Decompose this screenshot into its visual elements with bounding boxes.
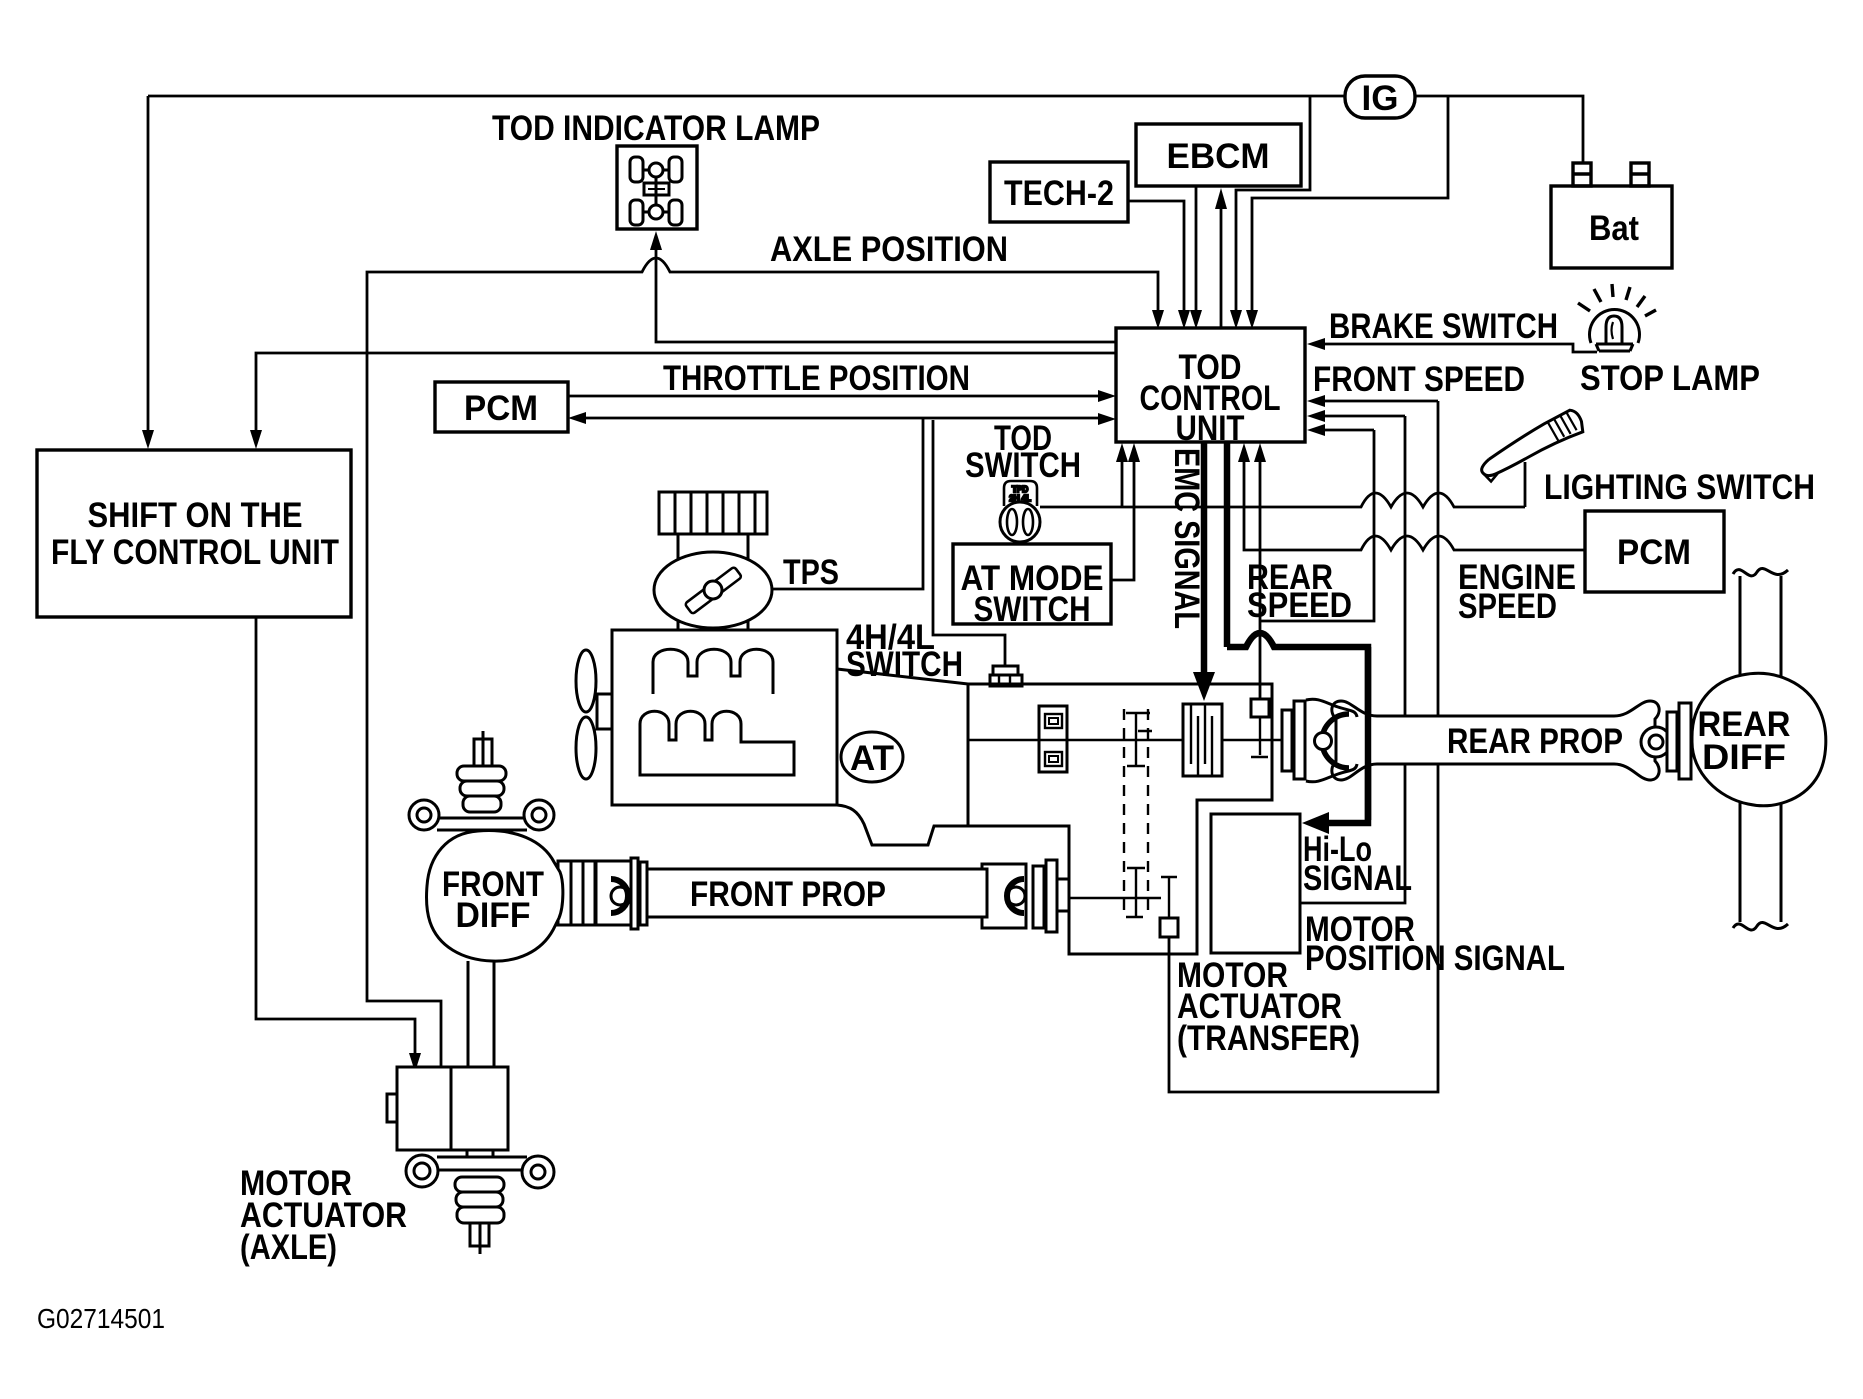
battery terminal left: [1573, 163, 1591, 186]
wire AXLE POSITION: [367, 258, 1158, 1073]
TPS throttle body: [654, 552, 772, 628]
wire AT mode switch to TOD: [1111, 461, 1134, 580]
axle actuator lower flange: [467, 1150, 493, 1157]
box TOD indicator lamp: [617, 146, 697, 229]
arrow TPS line into PCM: [568, 412, 586, 424]
wire EMC signal (thick): [1204, 442, 1368, 823]
wire rear speed sensor to TOD bottom: [1259, 461, 1262, 699]
wire IG feed to shift-on-the-fly unit: [147, 96, 150, 431]
wire IG branch A to TOD control unit: [1236, 96, 1310, 312]
arrow into shift unit (right): [250, 430, 262, 449]
arrowhead Hi-Lo signal: [1302, 812, 1329, 834]
wire shift unit input 2: [256, 353, 1116, 431]
axle actuator stub: [470, 1223, 489, 1246]
svg-text:AXLE POSITION: AXLE POSITION: [770, 230, 1008, 269]
wire IG supply top: [148, 95, 1344, 98]
front output u-joint (transfer): [982, 864, 1026, 928]
front prop shaft: [641, 869, 987, 917]
box AT MODE SWITCH: [953, 544, 1111, 624]
upper sprocket: [1126, 713, 1152, 767]
air cleaner: [659, 492, 767, 534]
wire IG branch B to TOD control unit: [1252, 97, 1448, 312]
lighting switch stalk: [1474, 408, 1589, 483]
svg-text:TOD INDICATOR LAMP: TOD INDICATOR LAMP: [492, 109, 820, 148]
TOD indicator lamp 4WD symbol: [630, 157, 682, 225]
arrow axle position into TOD top: [1152, 310, 1164, 329]
box TOD CONTROL UNIT: [1116, 328, 1305, 442]
front diff stub: [474, 739, 492, 766]
TPS stalks: [678, 534, 748, 630]
transmission and transfer case outline: [837, 666, 1282, 954]
gear block on main shaft: [1039, 706, 1067, 772]
box PCM (right): [1585, 511, 1724, 592]
wire shift unit output to axle actuator: [256, 617, 415, 1054]
wire TPS to PCM and TOD: [586, 418, 1098, 589]
rear prop shaft: [1332, 701, 1659, 780]
lower output centerline: [1070, 897, 1161, 899]
battery terminal right: [1631, 163, 1649, 186]
svg-text:EBCM: EBCM: [1166, 137, 1269, 176]
front prop front u-joint: [596, 858, 647, 929]
box TECH-2: [990, 162, 1128, 222]
AT oval: [841, 732, 903, 782]
motor actuator (transfer) box: [1211, 814, 1300, 953]
arrow EBCM into TOD top: [1190, 310, 1202, 329]
wire IG to battery: [1416, 96, 1583, 164]
wire TECH-2 to TOD: [1128, 201, 1184, 312]
arrow TOD switch into TOD bottom: [1116, 443, 1128, 462]
box SHIFT ON THE FLY CONTROL UNIT: [37, 450, 351, 617]
clutch pack: [1183, 704, 1222, 776]
rear output flange: [1282, 701, 1305, 779]
arrow TOD into EBCM: [1215, 188, 1227, 209]
arrow rear speed into TOD right: [1307, 424, 1325, 436]
node IG: [1345, 76, 1415, 118]
wire PCM throttle position to TOD: [568, 395, 1098, 398]
svg-text:AT: AT: [850, 739, 894, 778]
svg-text:UNIT: UNIT: [1176, 409, 1245, 448]
svg-text:DIFF: DIFF: [1702, 738, 1786, 777]
engine fan: [576, 650, 596, 712]
stop lamp rays: [1578, 284, 1656, 316]
front diff input bars: [558, 861, 595, 925]
motor actuator (axle): [387, 1067, 554, 1254]
battery Bat: [1551, 186, 1672, 268]
arrow into shift unit (left): [142, 430, 154, 449]
box PCM (left): [435, 382, 568, 432]
front diff housing: [426, 831, 562, 961]
arrow IG branch B into TOD top: [1246, 310, 1258, 329]
svg-text:(AXLE): (AXLE): [240, 1228, 337, 1267]
axle actuator bellows: [455, 1177, 504, 1192]
svg-text:FRONT SPEED: FRONT SPEED: [1313, 360, 1525, 399]
engine block: [576, 492, 837, 805]
svg-text:BRAKE SWITCH: BRAKE SWITCH: [1329, 307, 1558, 346]
svg-text:REAR PROP: REAR PROP: [1447, 722, 1623, 761]
svg-text:TECH-2: TECH-2: [1004, 174, 1114, 213]
wire Hi-Lo signal over prop: [1365, 647, 1372, 820]
front diff bellows: [457, 766, 506, 781]
wire TOD indicator lamp feed: [656, 249, 1116, 342]
chain dashed lines: [1124, 709, 1148, 918]
wire motor position signal: [1300, 416, 1405, 903]
wire rear speed sensor to TOD right: [1260, 430, 1374, 621]
svg-text:IG: IG: [1362, 79, 1399, 118]
svg-text:LIGHTING SWITCH: LIGHTING SWITCH: [1544, 468, 1815, 507]
svg-text:DIFF: DIFF: [456, 896, 531, 935]
arrow 4H/4L line into TOD left: [1098, 413, 1116, 425]
AT section divider: [967, 684, 970, 826]
arrow into TOD indicator lamp: [650, 231, 662, 250]
svg-text:PCM: PCM: [1617, 533, 1691, 572]
exhaust manifold: [640, 711, 794, 775]
svg-text:TPD: TPD: [1012, 485, 1028, 494]
arrow IG branch A into TOD top: [1230, 310, 1242, 329]
svg-text:SIGNAL: SIGNAL: [1303, 859, 1412, 898]
wire lighting switch to TOD: [1122, 462, 1525, 507]
svg-text:FLY CONTROL UNIT: FLY CONTROL UNIT: [51, 533, 339, 572]
axle actuator bracket: [437, 1157, 527, 1170]
box EBCM: [1136, 124, 1301, 186]
svg-text:STOP LAMP: STOP LAMP: [1580, 359, 1760, 398]
arrow shift output into axle actuator: [409, 1053, 421, 1072]
TOD switch knob: [1000, 481, 1040, 542]
arrow rear speed into TOD bottom: [1254, 443, 1266, 462]
main shaft centerline: [968, 739, 1282, 741]
rear output yoke: [1306, 699, 1357, 782]
svg-text:SPEED: SPEED: [1247, 586, 1352, 625]
arrow engine speed into TOD bottom: [1238, 443, 1250, 462]
svg-text:THROTTLE POSITION: THROTTLE POSITION: [663, 359, 970, 398]
svg-text:POSITION SIGNAL: POSITION SIGNAL: [1305, 939, 1565, 978]
svg-text:EMC SIGNAL: EMC SIGNAL: [1167, 448, 1206, 629]
front diff to axle actuator shaft: [468, 961, 494, 1067]
lower sprocket: [1126, 867, 1177, 918]
arrowhead EMC signal: [1193, 672, 1215, 701]
svg-text:SWITCH: SWITCH: [965, 446, 1081, 485]
rear diff axle upper: [1733, 569, 1788, 930]
rear diff axle lower: [1740, 798, 1781, 922]
svg-text:Bat: Bat: [1589, 209, 1639, 248]
svg-text:FRONT PROP: FRONT PROP: [690, 875, 886, 914]
svg-text:SPEED: SPEED: [1458, 587, 1557, 626]
rear prop rear u-joint: [1641, 703, 1691, 779]
wire TOD switch to TOD: [1040, 461, 1122, 507]
wire engine speed PCM to TOD: [1244, 461, 1585, 550]
arrow throttle position into TOD left: [1098, 390, 1116, 402]
svg-text:SWITCH: SWITCH: [846, 645, 963, 684]
wire 4H/4L switch: [933, 420, 1005, 665]
svg-text:(TRANSFER): (TRANSFER): [1177, 1019, 1360, 1058]
stop lamp: [1578, 284, 1656, 351]
rear speed sensor: [1251, 699, 1269, 717]
front diff top bracket: [409, 731, 554, 1067]
wire Hi-Lo signal (thick): [1227, 442, 1368, 823]
wire front speed sensor loop: [1169, 401, 1438, 1092]
arrow TECH-2 into TOD top: [1178, 310, 1190, 329]
front speed sensor: [1160, 918, 1178, 937]
arrow front speed into TOD right: [1307, 395, 1325, 407]
svg-text:SWITCH: SWITCH: [974, 590, 1091, 629]
svg-text:G02714501: G02714501: [37, 1303, 165, 1334]
svg-text:PCM: PCM: [464, 389, 538, 428]
svg-text:TPS: TPS: [783, 553, 839, 592]
arrow motor position into TOD right: [1307, 410, 1325, 422]
arrow brake switch into TOD right: [1307, 338, 1325, 350]
wire TOD to EBCM: [1220, 208, 1223, 329]
svg-text:SHIFT ON THE: SHIFT ON THE: [88, 496, 303, 535]
intake manifold: [653, 649, 773, 694]
svg-text:2H 4L: 2H 4L: [1009, 494, 1031, 503]
arrow AT mode into TOD bottom: [1128, 443, 1140, 462]
wire EBCM to TOD: [1195, 187, 1198, 312]
wire brake switch: [1324, 344, 1597, 352]
4H/4L switch bolt: [993, 666, 1018, 675]
rear diff housing: [1692, 673, 1826, 805]
